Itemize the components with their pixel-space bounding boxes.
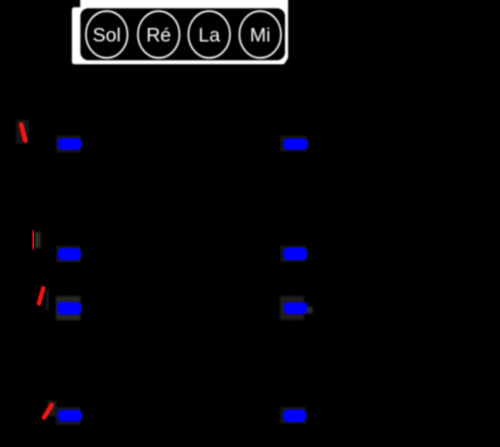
svg-text:Sol: Sol	[93, 25, 121, 47]
faint tile behind pill L4	[56, 407, 81, 426]
blue pill R4	[284, 410, 307, 423]
blue pill L2	[58, 248, 82, 260]
faint tile behind pill R4	[280, 407, 306, 424]
red mark 1 (backslash tick)	[21, 125, 25, 141]
faint tile behind pill L2	[56, 246, 81, 263]
legend box white card B (lower-left offset)	[72, 7, 285, 64]
faint bar beside red mark 2	[35, 232, 41, 248]
blue pill R3	[284, 302, 308, 314]
blue pill R2	[284, 248, 308, 261]
faint tile behind pill L3	[56, 296, 81, 320]
faint tile behind red mark 4	[48, 400, 57, 416]
faint tile behind pill R3	[280, 296, 304, 320]
blue pill R1	[284, 138, 309, 150]
legend box white card A (upper-right, cut off at top of image)	[80, 0, 288, 63]
red mark 3 (slash tick)	[39, 288, 43, 303]
circle La	[188, 11, 230, 58]
faint bar beside red mark 3	[46, 289, 50, 310]
red mark 2 (vertical tick)	[31, 232, 36, 247]
faint patch right of pill R3	[304, 306, 313, 313]
circle Mi	[239, 11, 281, 58]
svg-text:Ré: Ré	[146, 25, 171, 47]
red mark 4 (slash tick)	[44, 405, 52, 417]
blue pill L4	[58, 410, 82, 422]
faint tile behind pill R2	[280, 246, 306, 263]
faint tile behind pill L1	[56, 136, 81, 153]
blue pill L1	[58, 138, 82, 150]
svg-text:La: La	[198, 25, 220, 47]
legend box black interior	[80, 8, 285, 60]
faint tile behind red mark 1	[16, 120, 29, 145]
blue pill L3	[57, 302, 81, 315]
svg-text:Mi: Mi	[250, 25, 271, 47]
circle Sol	[86, 11, 128, 58]
faint tile behind pill R1	[280, 136, 307, 152]
circle Ré	[138, 11, 180, 58]
